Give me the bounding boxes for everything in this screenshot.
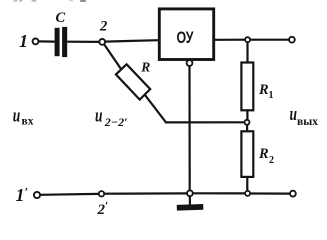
ground stub	[189, 196, 191, 205]
terminal 1'	[34, 192, 40, 198]
svg-text:u: u	[13, 105, 21, 126]
wire resistor R to mid wire (diagonal lower)	[145, 95, 166, 123]
output terminal bottom	[290, 191, 296, 197]
wire op-amp common down to ground rail	[188, 66, 190, 190]
node junction top (R1 tap)	[245, 37, 250, 42]
wire mid junction to R2	[246, 125, 248, 132]
resistor R2 body	[241, 131, 253, 177]
node junction mid (divider tap)	[245, 120, 250, 125]
svg-text:2: 2	[99, 19, 107, 35]
node junction bottom (R2 to rail)	[245, 191, 250, 196]
wire junction down to R1	[246, 42, 248, 63]
ground junction node	[187, 190, 193, 196]
svg-text:1: 1	[16, 185, 25, 205]
svg-text:R: R	[258, 146, 269, 162]
wire R1 to mid junction	[246, 110, 248, 120]
svg-text:C: C	[56, 10, 66, 26]
wire op-amp output to junction	[215, 39, 245, 41]
wire capacitor to node 2	[67, 41, 99, 43]
svg-text:R: R	[258, 82, 269, 98]
wire ground junction to R2 bottom junction	[193, 192, 245, 194]
op-amp common pin node	[187, 60, 193, 66]
svg-text:R: R	[140, 59, 150, 74]
svg-text:ОУ: ОУ	[177, 29, 195, 47]
paper speck top-left	[14, 0, 87, 2]
wire node 2 to op-amp	[105, 40, 159, 41]
svg-text:2−2′: 2−2′	[104, 115, 128, 129]
wire mid horizontal to divider tap	[165, 121, 245, 123]
wire R2 to bottom junction	[246, 177, 248, 191]
op-amp U1 box	[159, 9, 213, 60]
svg-text:вх: вх	[22, 115, 34, 127]
resistor R body (diagonal)	[116, 64, 150, 99]
terminal 1	[33, 39, 39, 45]
capacitor C right plate	[62, 27, 67, 57]
svg-text:1: 1	[269, 90, 274, 101]
wire terminal 1' to node 2'	[40, 193, 99, 196]
node 2	[99, 39, 105, 45]
capacitor C left plate	[55, 28, 60, 56]
svg-text:u: u	[290, 104, 298, 125]
node 2'	[99, 191, 104, 196]
wire node 2' to ground junction	[104, 192, 187, 195]
wire node 2 to resistor R (diagonal upper)	[104, 44, 122, 70]
svg-text:1: 1	[19, 31, 28, 51]
svg-text:u: u	[95, 105, 103, 126]
svg-text:вых: вых	[297, 116, 318, 128]
ground bar	[177, 204, 204, 211]
wire junction to output terminal	[250, 39, 289, 41]
svg-text:2: 2	[269, 155, 274, 166]
wire bottom junction to output terminal	[250, 192, 290, 194]
svg-text:′: ′	[25, 185, 29, 200]
resistor R1 body	[241, 63, 253, 111]
wire terminal1 to capacitor	[38, 40, 54, 42]
output terminal top	[289, 37, 295, 43]
svg-text:′: ′	[105, 199, 108, 213]
